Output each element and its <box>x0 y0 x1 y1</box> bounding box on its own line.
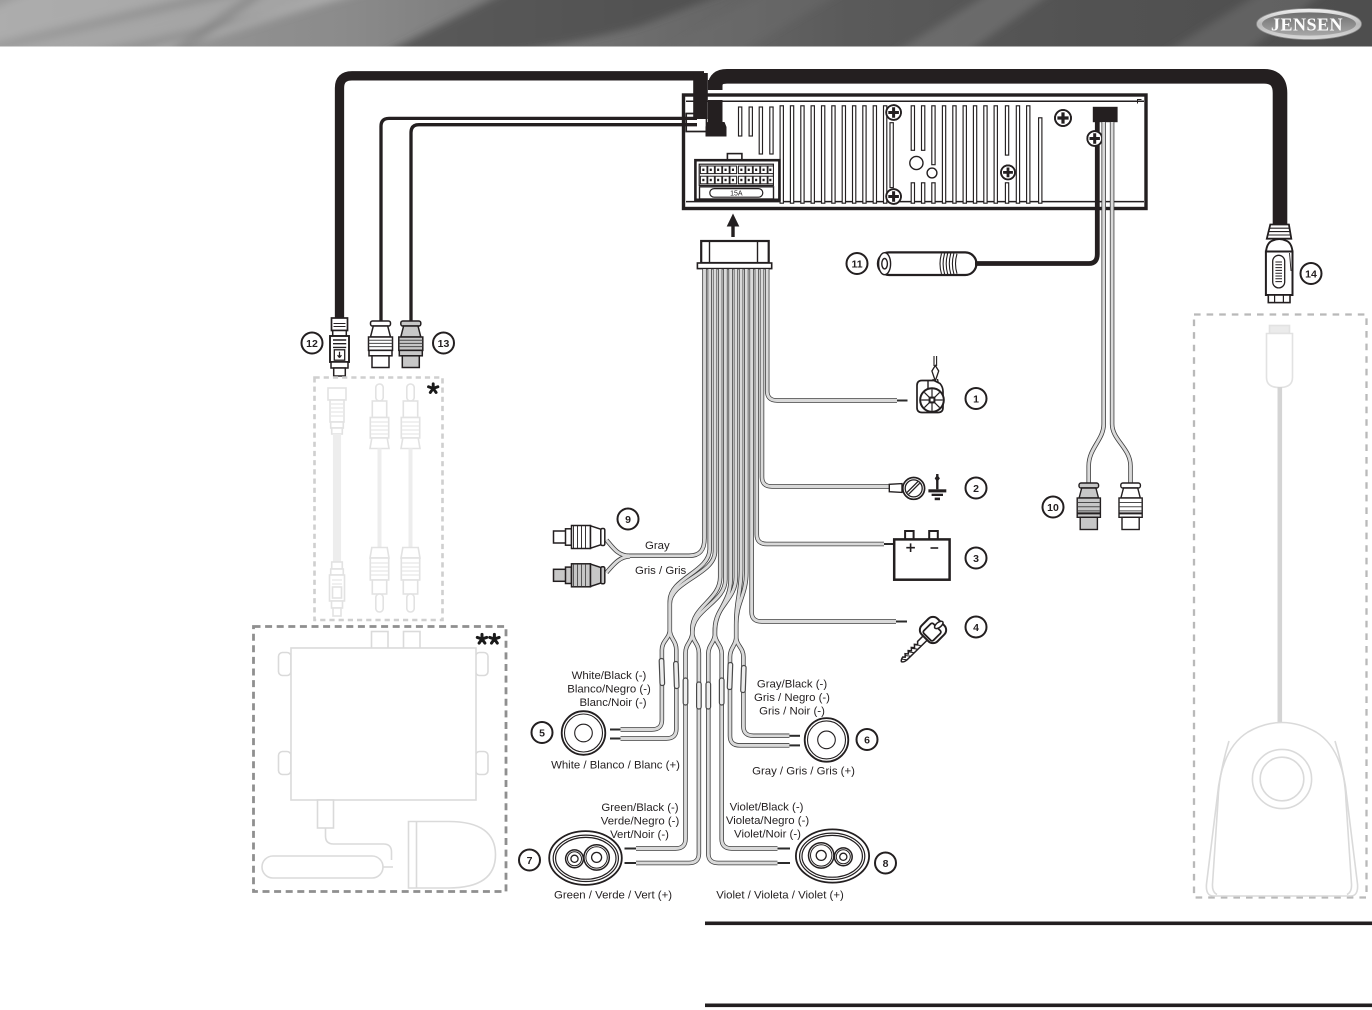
crimp sleeve spk5b <box>674 661 680 688</box>
header band <box>0 0 1372 47</box>
connector 14 DIN plug <box>1266 225 1293 303</box>
wire spk6 b <box>736 269 789 736</box>
16-pin connector on unit <box>695 154 779 200</box>
svg-text:6: 6 <box>864 735 870 747</box>
circled number 8 <box>875 853 896 874</box>
speaker 6 round <box>805 718 849 762</box>
bundle plug into unit <box>706 100 727 137</box>
circled number 10 <box>1043 497 1064 518</box>
label block speaker6 <box>752 679 855 778</box>
svg-text:Verde/Negro (-): Verde/Negro (-) <box>601 816 680 828</box>
svg-text:Blanc/Noir (-): Blanc/Noir (-) <box>579 697 646 709</box>
double asterisk <box>477 634 486 643</box>
dashed box * <box>315 378 443 621</box>
fuse 15A <box>700 187 774 199</box>
screw B <box>886 189 901 204</box>
circled number 3 <box>966 548 987 569</box>
item 1 : power antenna <box>917 356 944 413</box>
svg-text:Gray / Gris / Gris (+): Gray / Gris / Gris (+) <box>752 766 855 778</box>
circled number 1 <box>966 388 987 409</box>
circled number 12 <box>302 333 323 354</box>
svg-text:11: 11 <box>851 259 862 271</box>
speaker 7 oval <box>549 831 622 885</box>
crimp sleeve spk8a <box>706 682 711 709</box>
wire 9A branch <box>607 540 630 556</box>
ghost remote sensor <box>1206 723 1357 897</box>
svg-text:14: 14 <box>1305 269 1317 281</box>
label block speaker8 <box>716 802 844 902</box>
head unit rear panel <box>684 95 1147 209</box>
ghost antenna jack <box>1267 326 1293 725</box>
connector 13 gray RCA <box>399 321 423 368</box>
svg-text:Green / Verde / Vert (+): Green / Verde / Vert (+) <box>554 890 672 902</box>
dashed box right <box>1194 315 1367 898</box>
antenna lead housing box <box>686 114 706 132</box>
speaker 8 oval <box>796 829 869 882</box>
svg-text:White/Black (-): White/Black (-) <box>572 670 647 682</box>
wire 9 junction <box>628 269 705 556</box>
svg-text:9: 9 <box>625 514 631 526</box>
circled number 4 <box>966 617 987 638</box>
bottom rule 1 <box>705 922 1372 926</box>
harness connector body <box>697 241 771 269</box>
crimp sleeve spk5a <box>659 658 665 685</box>
crimp sleeve spk7b <box>697 682 702 709</box>
bare wire tips <box>610 401 908 864</box>
svg-text:3: 3 <box>973 553 979 565</box>
dashed box ** <box>254 627 507 892</box>
wire spk5 b <box>621 269 716 739</box>
svg-text:Violeta/Negro (-): Violeta/Negro (-) <box>726 815 810 827</box>
bottom rule 2 <box>705 1004 1372 1008</box>
circled number 13 <box>433 333 454 354</box>
circled number 2 <box>966 478 987 499</box>
gray line-out cables to 10 <box>1089 122 1131 484</box>
svg-text:Gris / Negro (-): Gris / Negro (-) <box>754 692 830 704</box>
RCA plug 9 top (white) <box>554 526 605 549</box>
RCA plug 9 bottom (gray) <box>554 564 605 587</box>
JENSEN logo <box>1257 9 1362 40</box>
thick cable to 12 <box>340 76 705 319</box>
screw C <box>1001 165 1015 179</box>
svg-text:4: 4 <box>973 622 979 634</box>
speaker 5 round <box>562 711 606 755</box>
wire 9B branch <box>607 556 631 572</box>
svg-text:Gris / Gris: Gris / Gris <box>635 565 687 577</box>
thick cable bundle left vertical <box>693 73 708 119</box>
item 11 : antenna plug <box>878 252 977 275</box>
svg-text:13: 13 <box>438 338 450 350</box>
thin cable to 13 gray <box>411 125 697 321</box>
vent circles <box>910 156 923 169</box>
heatsink fins <box>739 106 1042 203</box>
svg-text:Violet/Black (-): Violet/Black (-) <box>730 802 804 814</box>
thin cable to 13 white <box>381 118 697 321</box>
svg-text:White / Blanco / Blanc (+): White / Blanco / Blanc (+) <box>551 760 680 772</box>
circled number 11 <box>847 253 868 274</box>
svg-text:Gray: Gray <box>645 540 670 552</box>
crimp sleeve spk8b <box>719 678 724 705</box>
asterisk <box>429 384 438 393</box>
wire item3 battery <box>757 269 884 544</box>
svg-text:1: 1 <box>973 394 979 406</box>
svg-text:Blanco/Negro (-): Blanco/Negro (-) <box>567 684 651 696</box>
svg-text:12: 12 <box>306 338 318 350</box>
ghost CD changer <box>262 632 496 889</box>
RCA plug 10 right (white) <box>1119 483 1142 530</box>
circled number 6 <box>857 729 878 750</box>
item 4 : ignition key <box>893 614 948 669</box>
thick cable to 14 <box>715 76 1280 225</box>
svg-text:Violet / Violeta / Violet (+): Violet / Violeta / Violet (+) <box>716 890 844 902</box>
screw D <box>1055 110 1071 126</box>
wire spk7 b <box>636 269 725 863</box>
svg-text:7: 7 <box>527 855 533 867</box>
wire spk6 a <box>730 269 789 745</box>
crimp sleeve spk7a <box>683 678 688 705</box>
connector pins <box>700 166 773 184</box>
circled number 14 <box>1301 263 1322 284</box>
wire harness ribbon : outer strokes <box>607 269 898 863</box>
black cap connector on unit <box>1093 107 1118 122</box>
svg-text:2: 2 <box>973 483 979 495</box>
svg-text:Vert/Noir (-): Vert/Noir (-) <box>610 829 669 841</box>
wire spk5 a <box>621 269 710 730</box>
svg-text:Gray/Black (-): Gray/Black (-) <box>757 679 827 691</box>
RCA plug 10 left (gray) <box>1077 483 1100 530</box>
label block speaker5 <box>551 670 680 772</box>
connector 13 white RCA <box>369 321 393 368</box>
wire item1 antenna motor <box>767 269 897 401</box>
svg-text:Violet/Noir (-): Violet/Noir (-) <box>734 829 801 841</box>
svg-text:Gris / Noir (-): Gris / Noir (-) <box>759 706 825 718</box>
ghost mini-DIN extension <box>328 388 346 616</box>
wire spk7 a <box>636 269 720 849</box>
svg-text:JENSEN: JENSEN <box>1271 15 1343 35</box>
circled number 7 <box>519 850 540 871</box>
item 3 : battery <box>894 531 949 580</box>
label block speaker7 <box>554 802 679 902</box>
wire spk8 b <box>715 269 778 849</box>
svg-text:Green/Black (-): Green/Black (-) <box>601 802 678 814</box>
crimp sleeve spk6a <box>727 662 733 689</box>
ghost RCA extension right <box>401 384 420 612</box>
ghost RCA extension middle <box>370 384 389 612</box>
wire spk8 a <box>708 269 777 863</box>
wire item4 key <box>752 269 896 622</box>
screw A <box>886 105 901 120</box>
item 2 : ring terminal + chassis ground <box>889 474 946 500</box>
svg-text:5: 5 <box>539 728 545 740</box>
wire item2 ground <box>762 269 889 487</box>
svg-text:15A: 15A <box>730 191 743 198</box>
svg-text:10: 10 <box>1047 502 1059 514</box>
wire harness ribbon : inner strokes <box>607 269 898 863</box>
screw E over cable <box>1087 131 1102 146</box>
circled number 9 <box>618 509 639 530</box>
antenna cable from 11 to unit <box>975 115 1097 264</box>
arrow up to unit <box>731 224 734 237</box>
connector 12 mini-DIN <box>330 318 349 376</box>
svg-text:8: 8 <box>883 858 889 870</box>
crimp sleeve spk6b <box>741 665 747 692</box>
circled number 5 <box>532 722 553 743</box>
